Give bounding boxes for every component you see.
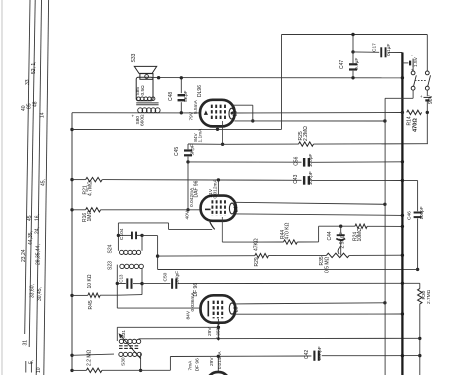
svg-text:45,: 45,: [40, 179, 46, 186]
wire (switch column x385): [384, 98, 386, 375]
wire (S23 bottom): [117, 294, 142, 297]
node junction C47 bottom: [351, 76, 354, 79]
svg-text:DF 96: DF 96: [194, 358, 200, 371]
svg-text:4.7MΩ: 4.7MΩ: [87, 181, 93, 196]
wire label 16: [35, 214, 41, 221]
svg-text:0.058mA: 0.058mA: [216, 321, 221, 339]
svg-text:C42: C42: [304, 350, 310, 359]
svg-text:0.1μF: 0.1μF: [354, 58, 360, 70]
label C17: [372, 43, 378, 52]
svg-text:0.5Ω: 0.5Ω: [140, 85, 146, 96]
wire (DF96 lower pin line): [235, 313, 403, 315]
svg-text:0.1μF: 0.1μF: [386, 44, 392, 56]
svg-text:30,45,: 30,45,: [37, 287, 43, 301]
wire (S24 right side): [141, 235, 143, 250]
svg-text:R45: R45: [88, 300, 94, 309]
node junction C104 left: [117, 234, 120, 237]
wire (S31 left side): [116, 327, 118, 341]
capacitor C50: [172, 278, 176, 288]
label C13: [119, 274, 124, 283]
wire (R16 line a): [72, 209, 86, 211]
wire (y255.5 line a): [158, 255, 255, 257]
wire label 33: [25, 79, 31, 85]
node junction DL96 bottom: [216, 128, 219, 131]
svg-text:C43: C43: [293, 174, 299, 183]
svg-text:S33: S33: [131, 53, 137, 62]
resistor R16: [86, 208, 101, 212]
node junction R30 y355.6: [418, 354, 421, 357]
wire label 24: [35, 227, 41, 234]
wire label 33,60: [30, 284, 36, 298]
wire (S30 left lead): [72, 354, 114, 355]
wire (S24 top wire): [118, 223, 212, 230]
label 470ohm bold: [413, 118, 419, 132]
wire (R16 line b): [101, 209, 202, 211]
capacitor C48: [178, 78, 186, 113]
wire (S23 right side): [141, 269, 143, 295]
node junction x222.6 y144.3: [221, 143, 224, 146]
svg-text:29V: 29V: [209, 357, 215, 366]
inductor S23 winding: [120, 264, 144, 268]
node junction bus y112.5: [401, 111, 404, 114]
wire (y129.4 line): [72, 128, 282, 130]
svg-text:S23: S23: [107, 261, 113, 270]
label C46: [407, 211, 413, 220]
tube DAF96 grid bars: [212, 200, 225, 216]
node junction DAF96 anode: [217, 178, 220, 181]
node junction y204.3 end: [383, 203, 386, 206]
node junction x72 y209.8: [70, 208, 73, 211]
inductor S24 winding: [120, 250, 141, 254]
label R44 470Kohm: [280, 222, 291, 239]
svg-text:C104: C104: [119, 228, 125, 240]
label R14: [407, 116, 413, 125]
label 100pF C46: [419, 206, 424, 219]
svg-text:0.012mA: 0.012mA: [212, 179, 218, 199]
wire (C104 to junction): [142, 235, 158, 269]
svg-text:C13: C13: [119, 274, 124, 283]
wire label 40: [21, 105, 27, 111]
label C44: [327, 231, 333, 240]
wire (switch pole2 up): [426, 35, 428, 72]
capacitor C45: [184, 144, 192, 162]
label S85 0.5ohm: [135, 85, 146, 96]
label 10KpF C43: [308, 171, 314, 185]
svg-text:5KpF: 5KpF: [189, 144, 195, 156]
tube DF96 filament: [207, 301, 209, 317]
tube DL96 envelope: [200, 100, 235, 127]
wire (R30 bottom): [419, 304, 421, 375]
node junction C104 right: [140, 234, 143, 237]
svg-text:C17: C17: [372, 43, 378, 52]
svg-text:0.036mA: 0.036mA: [190, 292, 196, 312]
node junction y34.5 x353: [351, 33, 354, 36]
wire label 28,35,44: [36, 244, 42, 265]
wire (y143.7 corner): [426, 143, 428, 145]
wire (y179.8 line b): [102, 179, 301, 182]
resistor R24: [355, 224, 367, 228]
label C45: [174, 147, 180, 156]
wire (C46 branch top): [402, 181, 417, 212]
tube DF96 pin ring: [229, 303, 234, 314]
scan edge line: [1, 0, 3, 375]
label C50: [163, 272, 169, 281]
node junction bus y77.8: [401, 76, 404, 79]
node junction x72 y129.5: [70, 128, 73, 131]
wire (DAF96 upper pin line): [236, 202, 385, 204]
node junction C17 tap: [351, 50, 354, 53]
svg-text:C45: C45: [174, 147, 180, 156]
resistor 2.2Mohm: [86, 368, 102, 372]
svg-text:10KpF: 10KpF: [174, 271, 179, 285]
wire (DF96 bottom lead): [217, 319, 219, 341]
label S31: [121, 330, 127, 339]
label 0.1uF C47: [354, 58, 360, 70]
label C42: [304, 350, 310, 359]
node junction DF96 bottom y327.3: [217, 326, 220, 329]
wire (y370.4 line a): [72, 369, 86, 371]
svg-text:2.2MΩ: 2.2MΩ: [303, 126, 309, 141]
tuning arrow S31/S30: [119, 333, 141, 359]
wire (y226 line a): [319, 225, 355, 227]
capacitor C13: [117, 278, 142, 288]
node junction speaker lead: [157, 76, 160, 79]
label DAF 96: [193, 180, 199, 197]
wire (battery to switch): [412, 65, 414, 71]
svg-text:L3: L3: [233, 307, 239, 313]
svg-text:47KΩ: 47KΩ: [254, 238, 260, 251]
svg-text:10MΩ: 10MΩ: [357, 228, 363, 242]
svg-text:C46: C46: [407, 211, 413, 220]
wire (y144 line b): [314, 143, 428, 145]
svg-text:1.5V: 1.5V: [413, 56, 419, 67]
node junction bus y314: [401, 312, 404, 315]
label 7mA: [187, 360, 193, 371]
wire (C46 branch bottom): [417, 218, 419, 269]
wire (y356.4 line b): [322, 355, 420, 357]
node junction x72 y295.4: [70, 294, 73, 297]
inductor S30 winding: [119, 352, 142, 356]
capacitor C56: [304, 158, 309, 167]
transformer secondary winding S85: [137, 97, 155, 101]
transformer core: [136, 103, 158, 105]
label R29: [254, 257, 260, 266]
wire (y255.5 line c): [349, 254, 402, 256]
svg-text:2.2 MΩ: 2.2 MΩ: [87, 349, 93, 366]
node DL96 right pin: [231, 112, 234, 115]
svg-text:1MΩ: 1MΩ: [87, 211, 93, 222]
label S23: [107, 261, 113, 270]
node junction y302.8 end: [383, 301, 386, 304]
label L3: [233, 307, 239, 313]
node junction bus y355.7: [401, 354, 404, 357]
svg-text:44,35,: 44,35,: [28, 231, 34, 245]
wire (cable stub 2): [30, 362, 32, 373]
wire label 5: [29, 360, 35, 364]
label 90V: [428, 94, 434, 104]
svg-text:C56: C56: [294, 156, 300, 165]
svg-text:33: 33: [25, 79, 31, 85]
label 10Kohm R45: [87, 274, 93, 288]
svg-text:28,35,44,: 28,35,44,: [36, 244, 42, 265]
wire (y144 line a): [223, 143, 299, 145]
label 2.2Mohm: [87, 349, 93, 366]
svg-text:-: -: [411, 53, 413, 58]
tube DAF96 filament: [205, 208, 211, 210]
svg-text:33,60,: 33,60,: [30, 284, 36, 298]
wire (left vertical bus): [71, 113, 73, 371]
svg-text:52, 1,: 52, 1,: [31, 61, 37, 74]
svg-text:C44: C44: [327, 231, 333, 240]
tube DAF96 pin ring: [229, 203, 234, 214]
svg-text:2.5KpF: 2.5KpF: [340, 232, 346, 248]
label C56: [294, 156, 300, 165]
wire (S30 right lead down): [140, 353, 142, 371]
wire (cable run 2): [29, 0, 35, 347]
node junction C13 left: [116, 282, 119, 285]
wire (primary line y112.7): [72, 112, 201, 114]
wire label 45 top: [40, 179, 46, 186]
wire (step up x170.4): [169, 357, 171, 371]
wire (y370.4 line b): [102, 369, 170, 371]
resistor R44: [284, 240, 298, 244]
node junction C44 top: [339, 225, 342, 228]
label 29V bottom: [209, 357, 215, 366]
label DF96 bottom: [194, 358, 200, 371]
wire (cable run 4): [44, 0, 49, 375]
node junction S30 right y370.4: [139, 369, 142, 372]
svg-text:16,: 16,: [35, 214, 41, 221]
wire (y161.9 line a): [188, 161, 302, 163]
node junction y356.4 x218.3: [217, 355, 220, 358]
wire (DF96 upper pin line): [235, 303, 385, 304]
label 29V 0.058mA: [207, 321, 221, 339]
wire (C45 to R16 line): [187, 162, 189, 210]
node junction y121 end: [383, 119, 386, 122]
wire (DL96 anode loop): [233, 105, 253, 121]
svg-text:DL96: DL96: [197, 85, 203, 97]
tube DF96 envelope: [201, 295, 236, 322]
node junction R30 y338.4: [418, 337, 421, 340]
switch pole 1: [411, 71, 416, 90]
core S31/S30: [119, 346, 140, 349]
label S80 660ohm: [135, 114, 146, 126]
wire label 31: [23, 340, 29, 346]
label S33: [131, 53, 137, 62]
wire (HT bus thick): [401, 53, 403, 375]
resistor R30: [418, 289, 422, 304]
wire (y255.5 line b): [269, 254, 327, 256]
tube DAF96 envelope: [201, 196, 236, 221]
node junction anode loop: [251, 119, 254, 122]
node junction bus y255.2: [401, 254, 404, 257]
label 5kpF C45: [189, 144, 195, 156]
label 79V 5.5mA: [189, 99, 199, 120]
svg-text:+: +: [420, 94, 423, 99]
inductor S31 winding: [119, 339, 141, 343]
node junction bus y226.4: [401, 225, 404, 228]
node junction bus y215.4: [401, 214, 404, 217]
wire (S31 right lead line y338.8): [139, 337, 420, 340]
node junction C45/R16: [186, 208, 189, 211]
label L5: [233, 111, 239, 117]
wire label 14: [39, 112, 45, 118]
svg-text:2.7MΩ: 2.7MΩ: [426, 289, 432, 304]
wire label 23,24: [21, 249, 27, 262]
capacitor C46: [414, 213, 422, 218]
svg-text:45: 45: [27, 215, 33, 221]
wire (speaker line y77.8): [153, 77, 402, 79]
svg-text:0.014mA: 0.014mA: [217, 351, 222, 369]
node junction C48 top: [180, 76, 183, 79]
switch gang link: [415, 79, 426, 81]
label 2.5KpF C44: [340, 232, 346, 248]
battery 90V: [420, 94, 431, 101]
label 1.5V: [413, 56, 419, 67]
svg-text:1.1mA: 1.1mA: [197, 128, 203, 143]
resistor R14: [407, 110, 422, 114]
wire (y226 line b): [367, 225, 402, 227]
tube DL96 grid bars: [212, 105, 225, 121]
label C47: [339, 60, 345, 69]
wire label 45: [27, 215, 33, 221]
svg-text:+: +: [132, 114, 135, 119]
svg-text:24,: 24,: [35, 227, 41, 234]
node junction x72 y355.3: [70, 354, 73, 357]
wire (R30 top): [419, 283, 421, 288]
wire (bottom tube lead): [217, 356, 219, 372]
label 10KpF C50: [174, 271, 179, 285]
svg-text:L5: L5: [233, 111, 239, 117]
svg-text:0.5 MΩ: 0.5 MΩ: [325, 256, 331, 273]
label R35 0.5Mohm: [319, 256, 330, 273]
battery 1.5V: [402, 53, 414, 72]
wire (y179.8 line c): [312, 179, 403, 181]
wire (S23 left side): [116, 265, 118, 309]
wire (C50 line a): [142, 283, 170, 285]
capacitor C17: [353, 47, 402, 57]
svg-text:470Ω: 470Ω: [413, 118, 419, 132]
wire (DF96 grid line y308): [117, 307, 202, 309]
wire (S24 left side): [117, 223, 119, 251]
label R25 2.2Mohm: [298, 126, 309, 141]
label C104: [119, 228, 125, 240]
wire (DAF96 inner lead down): [221, 217, 223, 242]
label S24: [108, 244, 114, 253]
label R45: [88, 300, 94, 309]
svg-text:5,: 5,: [29, 360, 35, 364]
wire (vertical x281.5): [281, 35, 283, 130]
svg-text:48: 48: [32, 101, 38, 107]
wire (DL96 upper pin line y113): [232, 112, 402, 115]
switch pole 2: [425, 71, 430, 90]
wire (y161.9 line b): [312, 161, 403, 164]
node junction x72 y370.4: [70, 369, 73, 372]
label 10KpF C42: [317, 346, 323, 360]
node junction bus y283.3: [401, 282, 404, 285]
node junction C13 right: [140, 282, 143, 285]
capacitor C42: [314, 351, 318, 361]
wire (C45 top corner): [188, 143, 223, 145]
svg-text:470 KΩ: 470 KΩ: [284, 222, 290, 239]
wire (y179.8 line a): [72, 179, 86, 181]
node junction bus y180.5: [401, 179, 404, 182]
node junction C46 bottom: [416, 268, 419, 271]
label R24 10Mohm: [353, 228, 364, 242]
label R21 4.7Mohm: [83, 181, 94, 196]
label DF 96: [193, 283, 199, 297]
wire label 44,35: [28, 231, 34, 245]
label 84V 1.1mA: [193, 128, 203, 143]
wire (y242 line a): [222, 241, 283, 243]
svg-text:C48: C48: [168, 92, 174, 101]
tube DAF96 bottom tip: [210, 222, 215, 230]
wire (C47 vertical): [352, 35, 354, 52]
svg-text:23,24: 23,24: [21, 249, 27, 262]
wire label 85: [26, 103, 32, 109]
capacitor C43: [304, 176, 309, 185]
label C48: [168, 92, 174, 101]
label + (primary): [132, 114, 135, 119]
wire (cable run 1): [25, 0, 30, 334]
wire label 52,1: [31, 61, 37, 74]
svg-text:5KpF: 5KpF: [183, 90, 189, 102]
capacitor C104: [118, 232, 142, 240]
svg-text:R29: R29: [254, 257, 260, 266]
label 5kpF C48: [183, 90, 189, 102]
transformer secondary S85 box: [136, 77, 153, 101]
tube DF96 grid bars: [214, 301, 223, 319]
label R30 2.7Mohm: [421, 289, 432, 304]
wire (grid line y327.3): [117, 326, 218, 328]
wire (DAF96 lower pin line): [236, 214, 402, 216]
svg-text:90V: 90V: [428, 94, 434, 104]
resistor R29: [255, 253, 269, 257]
label 40V 0.042mA: [185, 187, 196, 219]
capacitor C47: [349, 52, 357, 78]
transformer primary winding S80: [138, 108, 160, 113]
svg-text:100pF: 100pF: [308, 154, 314, 168]
node junction x157.6 y256: [156, 254, 159, 257]
label 100pF C56: [308, 154, 314, 168]
svg-text:40V: 40V: [185, 210, 191, 219]
label 31V 0.012mA: [208, 179, 219, 199]
wire (y356.4 line a): [170, 355, 311, 358]
resistor R25: [299, 142, 314, 146]
resistor R45: [88, 293, 100, 297]
wire (switch pole2 down): [426, 90, 428, 96]
tube DF96 output (cut): [207, 372, 230, 375]
svg-text:S30: S30: [120, 357, 126, 366]
wire (cable stub 1): [25, 361, 27, 373]
svg-text:S24: S24: [108, 244, 114, 253]
wire label 48: [32, 101, 38, 107]
svg-text:100pF: 100pF: [419, 206, 424, 219]
wire (cable run 3): [36, 0, 41, 375]
wire (90V battery down): [426, 102, 428, 144]
svg-text:29V: 29V: [207, 327, 213, 336]
wire (switch pole1 down): [385, 90, 413, 98]
svg-text:10 KΩ: 10 KΩ: [87, 274, 93, 288]
svg-text:0.042mA: 0.042mA: [189, 187, 195, 207]
node junction C48 bottom: [180, 111, 183, 114]
tube DL96 filament: [204, 110, 208, 115]
wire (C50 line b): [178, 282, 420, 284]
resistor R21: [86, 177, 103, 181]
wire (DAF96 anode vertical): [217, 180, 219, 196]
label 47Kohm R29: [254, 238, 260, 251]
wire (y269.5 line): [158, 268, 418, 270]
